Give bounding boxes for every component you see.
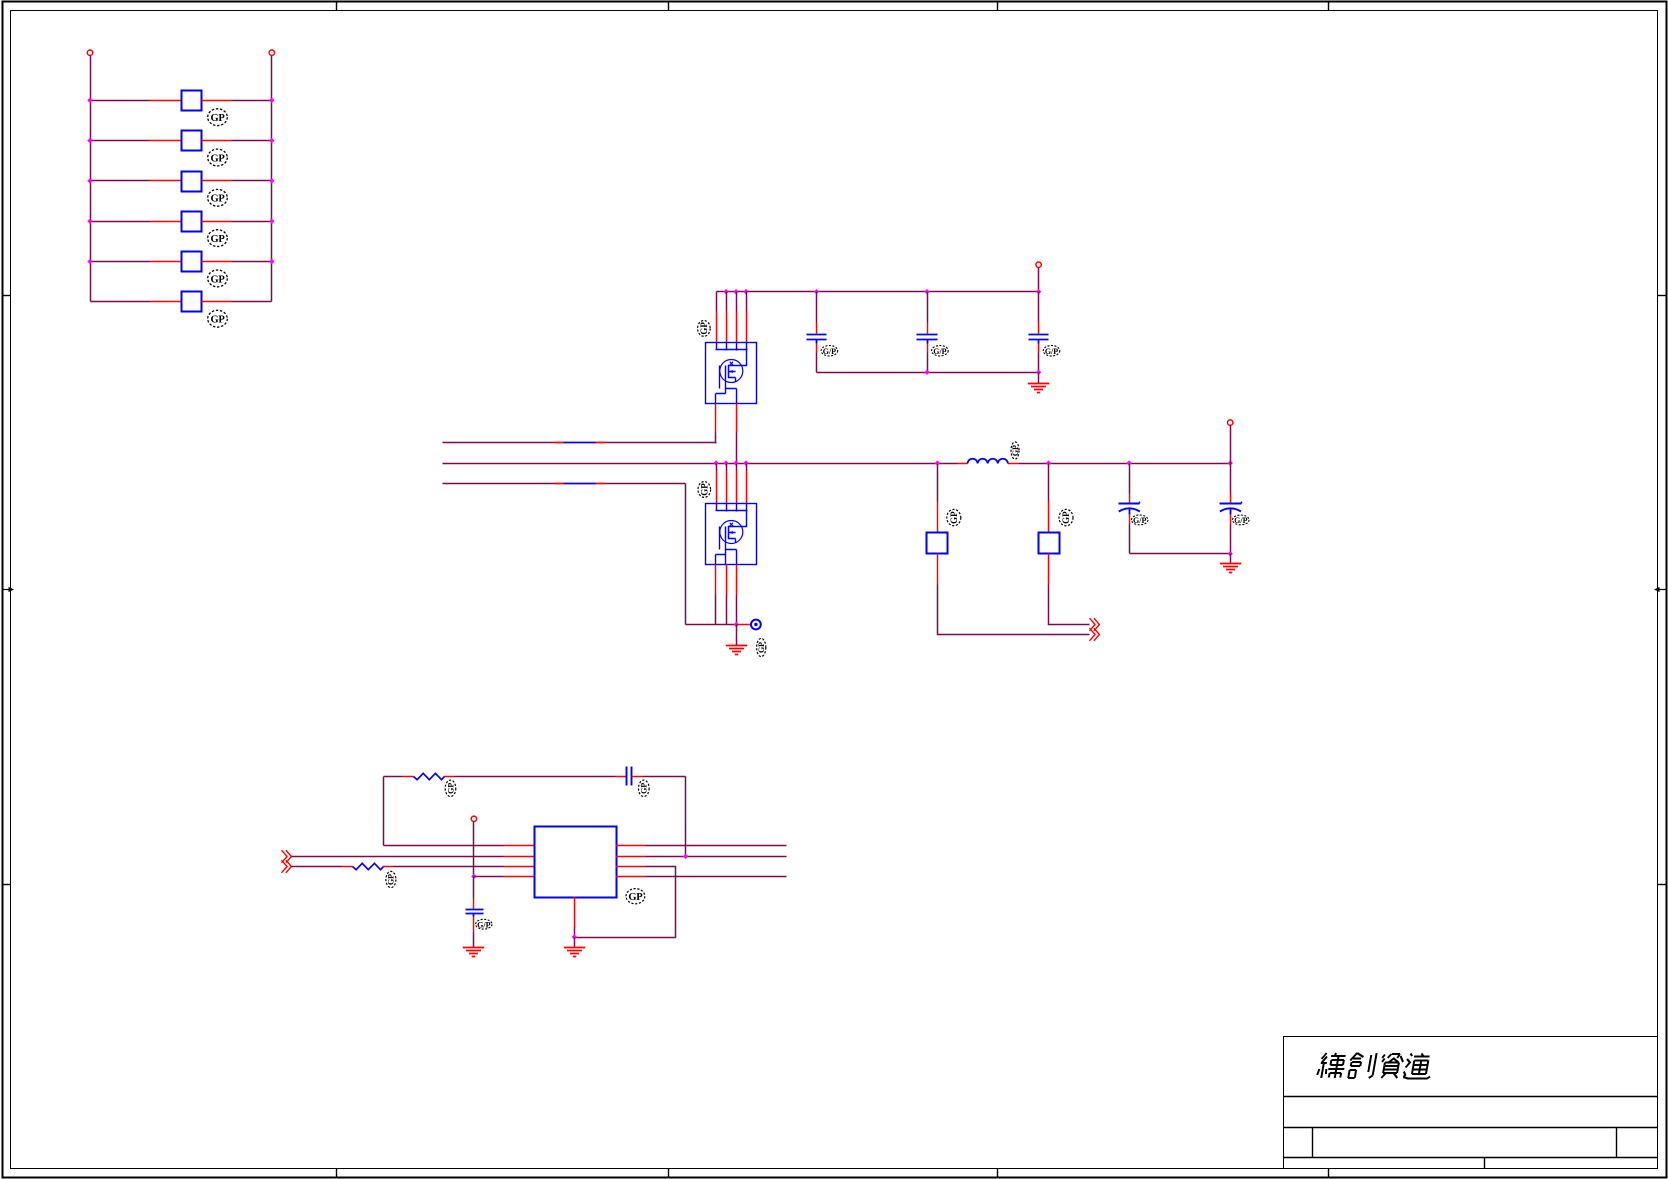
wire ground stem C7	[473, 933, 475, 948]
pin Q2 pin6 bottom	[726, 565, 728, 595]
pin U1 bottom	[574, 897, 576, 928]
pin U1 row1 right	[616, 845, 646, 847]
pin U1 row4 right	[616, 876, 646, 878]
offpage connector OP2	[1090, 618, 1100, 631]
capacitor C3 pin bottom	[1038, 344, 1040, 353]
svg-text:GP: GP	[211, 315, 226, 326]
capacitor C7 pin top	[473, 877, 475, 899]
top zone tick 4	[1328, 2, 1330, 11]
capacitor C6	[627, 767, 632, 786]
junction output gnd node	[1228, 551, 1233, 556]
IC U1	[535, 827, 617, 898]
top zone tick 2	[668, 2, 670, 11]
pin Q2 pin1 top	[716, 471, 718, 504]
label R10	[386, 871, 396, 887]
svg-text:GP: GP	[1011, 445, 1020, 456]
ground Q2 source	[726, 646, 747, 655]
junction source node	[734, 622, 739, 627]
pin U1 row3 right	[616, 866, 646, 868]
wire feedback loop left vertical	[383, 777, 385, 846]
wire Q1 pin4 top	[746, 292, 748, 312]
wire row2 right	[232, 140, 272, 142]
resistor Rs1	[927, 533, 948, 554]
left zone tick 2	[3, 884, 11, 886]
capacitor C7 pin bottom	[473, 917, 475, 933]
title block cell divider right	[1616, 1128, 1618, 1158]
pin Q2 pin2 top	[726, 471, 728, 504]
capacitor C5 pin bottom	[1230, 515, 1232, 525]
wire ground stem U1	[574, 938, 576, 948]
wire Q1 pin1 top	[716, 292, 718, 312]
svg-text:GP: GP	[699, 483, 709, 496]
wire Q1 pin6 to W2	[736, 433, 738, 464]
capacitor C3 wire top	[1038, 292, 1040, 323]
svg-text:GP: GP	[699, 322, 709, 335]
pin row5 right	[202, 261, 232, 263]
wire left rail	[90, 56, 92, 302]
wire feedback loop top a	[384, 776, 403, 778]
label Q2 GP	[698, 482, 711, 498]
wire VIN drop	[1038, 268, 1040, 292]
svg-text:GP: GP	[211, 274, 226, 285]
pin Rs2 top	[1048, 502, 1050, 533]
label C3 GP	[1043, 346, 1060, 357]
wire Q2 pin1 top	[716, 464, 718, 471]
resistor R5	[182, 252, 202, 272]
wire row2 left	[91, 140, 150, 142]
wire right rail	[271, 56, 273, 302]
title block divider 2	[1284, 1127, 1658, 1129]
title block bottom cell divider	[1484, 1158, 1486, 1169]
capacitor C3 pin top	[1038, 323, 1040, 334]
pin Q2 pin7 bottom	[736, 565, 738, 595]
capacitor C3	[1029, 335, 1049, 344]
wire ground stem output	[1230, 554, 1232, 564]
label C4 GP	[1131, 515, 1148, 525]
pin row5 left	[150, 261, 182, 263]
label TP1	[757, 638, 766, 656]
port P2 terminal circle	[269, 50, 274, 55]
junction EN row4	[471, 874, 476, 879]
wire U1 row2 right	[646, 856, 787, 858]
pin row4 left	[150, 221, 182, 223]
junction W2 Cb2	[1046, 460, 1051, 465]
offpage connector OP3	[282, 850, 292, 863]
junction W2 C5	[1228, 460, 1233, 465]
port VIN terminal circle	[1036, 262, 1041, 267]
pin R10 right	[383, 866, 394, 868]
resistor R1	[182, 91, 202, 111]
label R6 GP	[208, 310, 228, 327]
top zone tick 1	[336, 2, 338, 11]
wire W2 phase bus left	[443, 463, 958, 465]
test point TP1	[751, 620, 761, 630]
label C1 GP	[821, 346, 838, 357]
wire U1 row4	[474, 876, 504, 878]
wire row3 left	[91, 180, 150, 182]
pin R9 right	[444, 776, 455, 778]
resistor Rs2	[1039, 533, 1060, 554]
wire row6 right	[232, 301, 272, 303]
label Rs2 Cb	[1059, 509, 1073, 525]
capacitor C1 pin bottom	[816, 344, 818, 353]
junction row3 right	[269, 178, 274, 183]
wire Rs2 top	[1048, 464, 1050, 502]
wire row4 right	[232, 221, 272, 223]
junction feedback row2	[683, 854, 688, 859]
ground cap bank	[1028, 384, 1049, 393]
pin row2 left	[150, 140, 182, 142]
junction row2 left	[87, 138, 92, 143]
wire U1 row4 right	[646, 876, 787, 878]
label Rs1 Cb	[947, 509, 961, 525]
resistor R6	[182, 292, 202, 312]
svg-text:GP: GP	[211, 194, 226, 205]
pin L1 right	[1008, 463, 1019, 465]
svg-text:GP: GP	[211, 153, 226, 164]
wire U1 row1 right	[646, 845, 787, 847]
pin C6 left	[616, 776, 627, 778]
SECTION: resistor network	[87, 50, 274, 327]
junction W2 a	[713, 460, 718, 465]
pin L1 left	[958, 463, 968, 465]
wire output cap bottom bus	[1130, 553, 1231, 555]
wire U1 row1	[384, 845, 504, 847]
transistor Q2	[706, 504, 757, 565]
svg-text:GP: GP	[446, 783, 455, 794]
label R1 GP	[208, 109, 228, 126]
junction top bus c	[743, 289, 748, 294]
pin row6 left	[150, 301, 182, 303]
wire W3 red segment b	[596, 483, 606, 485]
title block cell divider left	[1312, 1128, 1314, 1158]
capacitor C2 wire bottom	[927, 353, 929, 373]
resistor R10	[353, 863, 384, 869]
pin Q1 pin3 top	[736, 312, 738, 343]
ground output	[1220, 564, 1241, 573]
left zone tick 1	[3, 295, 11, 297]
capacitor C1 wire top	[816, 292, 818, 323]
capacitor C2 wire top	[927, 292, 929, 323]
wire Q2 pin5 bottom	[715, 595, 717, 625]
port EN terminal circle	[471, 816, 476, 821]
svg-text:GP: GP	[211, 113, 226, 124]
svg-text:G/P: G/P	[1045, 347, 1058, 356]
wire Q2 pin3 top	[736, 464, 738, 471]
junction top bus a	[723, 289, 728, 294]
junction row1 left	[87, 98, 92, 103]
svg-text:G/P: G/P	[1133, 516, 1146, 525]
SECTION: power stage	[443, 262, 1250, 657]
wire U1 row3 wrap	[575, 867, 676, 938]
pin Rs1 top	[937, 502, 939, 533]
svg-text:G/P: G/P	[933, 347, 946, 356]
wire row4 left	[91, 221, 150, 223]
wire Q1 pin3 top	[736, 292, 738, 312]
label R9	[445, 780, 456, 796]
capacitor C2 pin bottom	[927, 344, 929, 353]
junction row2 right	[269, 138, 274, 143]
capacitor C1 wire bottom	[816, 353, 818, 373]
pin R9 left	[403, 776, 414, 778]
junction W2 d	[743, 460, 748, 465]
pin row3 right	[202, 180, 232, 182]
svg-text:GP: GP	[628, 892, 643, 903]
junction top bus b	[733, 289, 738, 294]
resistor R2	[182, 131, 202, 151]
wire Q2 pin6 bottom	[726, 595, 728, 625]
capacitor C2 pin top	[927, 323, 929, 334]
pin row2 right	[202, 140, 232, 142]
wire Q1 pin2 top	[726, 292, 728, 312]
pin test point TP1	[737, 624, 751, 626]
capacitor C1	[807, 335, 827, 344]
pin row3 left	[150, 180, 182, 182]
transistor Q1	[706, 343, 757, 404]
svg-text:G/P: G/P	[477, 920, 490, 929]
capacitor C1 pin top	[816, 323, 818, 334]
bottom zone tick 2	[668, 1169, 670, 1178]
wire row5 left	[91, 261, 150, 263]
capacitor C5 wire top	[1230, 464, 1232, 494]
right zone tick 1	[1658, 295, 1667, 297]
capacitor C7 pin red	[473, 899, 475, 910]
label R5 GP	[208, 270, 228, 287]
junction bottom bus C2	[924, 370, 929, 375]
pin U1 row2 right	[616, 856, 646, 858]
pin C6 right	[632, 776, 643, 778]
wire feedback loop top b	[455, 776, 616, 778]
wire row6 left	[91, 301, 150, 303]
label Q1 GP	[698, 321, 711, 337]
right zone tick 2	[1658, 884, 1667, 886]
junction row1 right	[269, 98, 274, 103]
company logo text 緯創資通	[1317, 1053, 1434, 1079]
wire row1 right	[232, 100, 272, 102]
junction top bus C1	[814, 289, 819, 294]
title block divider 3	[1284, 1157, 1658, 1159]
capacitor C4 pin bottom	[1129, 515, 1131, 525]
wire U1 row2	[292, 856, 504, 858]
svg-text:G/P: G/P	[1234, 516, 1247, 525]
label U1 GP	[626, 889, 645, 904]
bottom zone tick 4	[1328, 1169, 1330, 1178]
SECTION: controller	[282, 767, 787, 957]
capacitor C4 wire top	[1129, 464, 1131, 494]
junction W2 b	[723, 460, 728, 465]
pin Q2 pin4 top	[746, 471, 748, 504]
junction row4 left	[87, 219, 92, 224]
svg-text:GP: GP	[757, 642, 766, 653]
wire top bus	[717, 291, 1039, 293]
pin R10 left	[342, 866, 353, 868]
port P1 terminal circle	[87, 50, 92, 55]
label C5 GP	[1233, 515, 1250, 525]
pin Q1 pin4 top	[746, 312, 748, 343]
junction W2 C4	[1126, 460, 1131, 465]
ground C7	[463, 948, 484, 957]
capacitor C5 wire bottom	[1230, 525, 1232, 554]
pin row6 right	[202, 301, 232, 303]
wire cap bank bottom bus	[817, 372, 1039, 374]
wire feedback loop right vertical	[685, 777, 687, 857]
capacitor C3 wire bottom	[1038, 353, 1040, 373]
label R3 GP	[208, 189, 228, 206]
wire Rs1 top	[937, 464, 939, 502]
title block outline	[1284, 1037, 1658, 1169]
pin Q1 pin1 top	[716, 312, 718, 343]
pin Rs1 bottom	[937, 554, 939, 585]
capacitor C5	[1220, 502, 1242, 515]
wire W1 red segment a	[555, 442, 564, 444]
right center arrow	[1654, 587, 1667, 592]
label C2 GP	[932, 346, 949, 357]
label R4 GP	[208, 230, 228, 247]
svg-text:GP: GP	[211, 234, 226, 245]
wire U1 row3 b	[394, 866, 504, 868]
wire ground stem cap bank	[1038, 373, 1040, 384]
wire W3 bottom run	[686, 624, 737, 626]
pin U1 row2 left	[504, 856, 535, 858]
wire VOUT drop	[1230, 426, 1232, 464]
pin row4 right	[202, 221, 232, 223]
wire Q2 pin7 bottom	[736, 595, 738, 625]
junction row5 left	[87, 259, 92, 264]
pin Rs2 bottom	[1048, 554, 1050, 585]
wire W3	[443, 483, 686, 485]
pin Q1 pin5 bottom	[715, 404, 717, 433]
pin Q2 pin5 bottom	[715, 565, 717, 595]
svg-text:GP: GP	[640, 783, 649, 794]
junction U1 gnd node	[572, 934, 577, 939]
wire ground stem Q2	[736, 625, 738, 646]
wire row3 right	[232, 180, 272, 182]
junction row4 right	[269, 219, 274, 224]
pin U1 row3 left	[504, 866, 535, 868]
wire Rs1 bottom	[938, 585, 1090, 635]
pin U1 row1 left	[504, 845, 535, 847]
ground U1	[564, 948, 585, 957]
svg-text:GP: GP	[1061, 511, 1071, 524]
resistor R4	[182, 212, 202, 232]
wire W1	[443, 442, 717, 444]
wire W3 red segment a	[555, 483, 564, 485]
wire feedback loop top c	[643, 776, 686, 778]
title block divider 1	[1284, 1096, 1658, 1098]
bottom zone tick 1	[336, 1169, 338, 1178]
left center arrow	[3, 587, 15, 592]
junction top bus C2	[924, 289, 929, 294]
wire W3 drop	[685, 484, 687, 625]
resistor R9	[414, 773, 445, 779]
wire W1 red segment b	[596, 442, 606, 444]
junction W2 L1	[935, 460, 940, 465]
top zone tick 3	[997, 2, 999, 11]
label L1	[1011, 442, 1020, 459]
wire W3 blue segment	[564, 483, 596, 485]
svg-text:GP: GP	[949, 511, 959, 524]
junction W2 c	[733, 460, 738, 465]
wire Q2 pin2 top	[726, 464, 728, 471]
svg-text:GP: GP	[387, 874, 396, 885]
capacitor C4 pin top	[1129, 494, 1131, 504]
capacitor C5 pin top	[1230, 494, 1232, 504]
offpage connector OP1	[1090, 628, 1100, 641]
junction bottom bus C3	[1036, 370, 1041, 375]
pin U1 row4 left	[504, 876, 535, 878]
pin Q2 pin3 top	[736, 471, 738, 504]
label C7 GP	[476, 919, 492, 929]
wire Q1 pin5 to W1	[715, 433, 717, 444]
pin row1 left	[150, 100, 182, 102]
wire row5 right	[232, 261, 272, 263]
junction row5 right	[269, 259, 274, 264]
capacitor C4	[1119, 502, 1140, 515]
pin Q1 pin6 bottom	[736, 404, 738, 433]
svg-text:G/P: G/P	[823, 347, 836, 356]
inductor L1	[968, 459, 1008, 464]
wire row1 left	[91, 100, 150, 102]
junction top bus C3	[1036, 289, 1041, 294]
wire W2 phase bus right	[1019, 463, 1231, 465]
wire W1 blue segment	[564, 442, 596, 444]
capacitor C4 wire bottom	[1129, 525, 1131, 554]
label R2 GP	[208, 149, 228, 166]
wire U1 row3 a	[292, 866, 342, 868]
wire U1 bottom	[574, 928, 576, 938]
junction row3 left	[87, 178, 92, 183]
resistor R3	[182, 172, 202, 192]
capacitor C2	[917, 335, 938, 344]
offpage connector OP4	[282, 860, 292, 873]
capacitor C7	[466, 910, 484, 917]
wire EN drop	[473, 822, 475, 877]
bottom zone tick 3	[997, 1169, 999, 1178]
wire Rs2 bottom	[1049, 585, 1090, 625]
port VOUT terminal circle	[1228, 420, 1233, 425]
pin Q1 pin2 top	[726, 312, 728, 343]
label C6	[639, 780, 650, 796]
wire Q2 pin4 top	[746, 464, 748, 471]
pin row1 right	[202, 100, 232, 102]
